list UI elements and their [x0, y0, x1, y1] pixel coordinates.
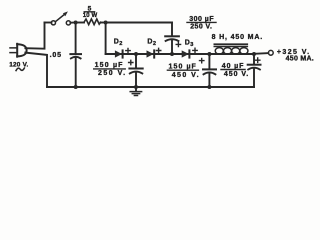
- svg-text:D: D: [114, 39, 119, 46]
- node junction dot top bus at drop: [104, 21, 108, 25]
- output terminal: [268, 50, 273, 55]
- wire resistor to junction: [101, 22, 106, 24]
- node junction dot bottom bus at C5: [74, 85, 78, 89]
- ground: [130, 87, 141, 96]
- node junction dot main line at C2: [134, 52, 138, 56]
- wire top to switch: [45, 22, 52, 24]
- wire drop to main line: [105, 23, 107, 55]
- diode D2 (second): [147, 50, 155, 57]
- capacitor C4 40 uF 450 V.: [248, 54, 261, 87]
- polarity + after D3: [193, 48, 197, 52]
- wire bottom bus: [47, 86, 254, 88]
- label 150 uF / 450 V.: [169, 63, 200, 79]
- svg-text:10 W: 10 W: [83, 13, 98, 19]
- node junction dot main line at C1: [170, 52, 174, 56]
- label +325 V. 450 MA.: [277, 49, 314, 63]
- polarity + of C1: [176, 42, 180, 46]
- capacitor C3 150 uF 450 V.: [203, 54, 216, 87]
- wire plug lower lead: [25, 53, 47, 87]
- label 150 uF / 250 V.: [95, 62, 127, 77]
- svg-text:8 H, 450 MA.: 8 H, 450 MA.: [212, 34, 263, 41]
- label 40 uF / 450 V.: [222, 63, 249, 78]
- polarity + after D2 (second): [156, 48, 160, 52]
- capacitor C1 300 uF 250 V.: [165, 23, 179, 55]
- svg-text:2: 2: [119, 41, 122, 47]
- capacitor C5 .05: [70, 23, 81, 88]
- diode D2 (first): [115, 50, 123, 57]
- svg-text:D: D: [147, 39, 152, 46]
- label 300 uF / 250 V.: [189, 16, 214, 31]
- svg-text:3: 3: [190, 42, 193, 48]
- node junction dot main line at C4: [252, 52, 256, 56]
- AC sine symbol: [16, 68, 24, 71]
- svg-text:120 V.: 120 V.: [9, 61, 28, 68]
- svg-text:450 V.: 450 V.: [172, 72, 200, 79]
- polarity + of C2: [129, 60, 133, 64]
- svg-text:D: D: [185, 40, 190, 47]
- label D2 (second): [147, 39, 156, 48]
- wire to output terminal: [254, 52, 268, 55]
- capacitor C2 150 uF 250 V.: [129, 54, 142, 87]
- polarity + after D2 (first): [126, 48, 130, 52]
- label D2 (first): [114, 39, 123, 48]
- label 5 / 10 W: [83, 5, 98, 19]
- svg-text:250 V.: 250 V.: [190, 24, 212, 31]
- svg-text:.05: .05: [50, 52, 62, 59]
- label D3: [185, 40, 194, 49]
- node junction dot bottom bus at C3: [207, 85, 211, 89]
- polarity + of C3: [200, 58, 204, 62]
- resistor R1 5 ohm 10 W: [84, 19, 101, 25]
- svg-text:150 µF: 150 µF: [95, 62, 124, 69]
- diode D3: [182, 50, 190, 57]
- wire top bus to C1: [106, 22, 172, 24]
- wire junction to resistor: [76, 22, 84, 24]
- plug P1: [10, 44, 27, 57]
- wire main rectifier line: [106, 53, 254, 55]
- node junction dot bottom bus at C2/ground: [134, 85, 138, 89]
- node junction dot main line at C3: [207, 52, 211, 56]
- svg-text:450 MA.: 450 MA.: [286, 56, 314, 63]
- wire switch to junction: [70, 22, 75, 24]
- polarity + of C4: [256, 58, 260, 62]
- svg-text:450 V.: 450 V.: [224, 71, 249, 78]
- switch S1: [51, 11, 70, 25]
- svg-text:150 µF: 150 µF: [169, 63, 197, 70]
- node junction dot top bus at C5: [74, 21, 78, 25]
- wire plug upper lead: [25, 23, 44, 49]
- svg-text:250 V.: 250 V.: [98, 70, 127, 77]
- choke L1 8 H 450 MA.: [214, 44, 248, 54]
- svg-text:2: 2: [153, 41, 156, 47]
